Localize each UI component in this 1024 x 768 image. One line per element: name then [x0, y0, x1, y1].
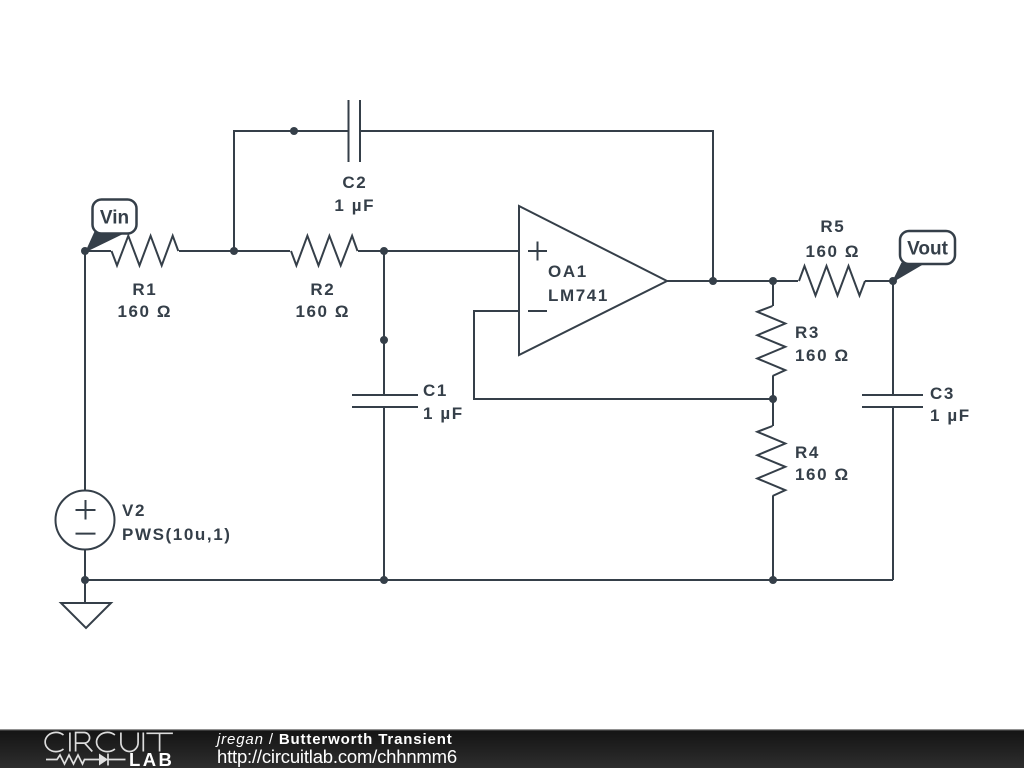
svg-text:160 Ω: 160 Ω — [117, 302, 172, 321]
svg-text:V2: V2 — [122, 501, 146, 520]
svg-text:Vout: Vout — [907, 239, 948, 260]
svg-text:160 Ω: 160 Ω — [795, 465, 850, 484]
svg-text:C3: C3 — [930, 384, 955, 403]
svg-text:R5: R5 — [820, 217, 845, 236]
svg-text:R3: R3 — [795, 323, 820, 342]
svg-text:160 Ω: 160 Ω — [295, 302, 350, 321]
svg-text:OA1: OA1 — [548, 262, 588, 281]
svg-text:PWS(10u,1): PWS(10u,1) — [122, 525, 232, 544]
svg-text:160 Ω: 160 Ω — [805, 242, 860, 261]
svg-text:1 µF: 1 µF — [334, 196, 375, 215]
svg-text:R2: R2 — [310, 280, 335, 299]
svg-text:C2: C2 — [342, 173, 367, 192]
svg-text:Vin: Vin — [100, 208, 129, 229]
svg-text:C1: C1 — [423, 381, 448, 400]
svg-text:LM741: LM741 — [548, 286, 609, 305]
svg-text:160 Ω: 160 Ω — [795, 346, 850, 365]
svg-text:R4: R4 — [795, 443, 820, 462]
svg-text:LAB: LAB — [129, 749, 174, 768]
svg-text:R1: R1 — [132, 280, 157, 299]
svg-text:1 µF: 1 µF — [423, 404, 464, 423]
svg-text:http://circuitlab.com/chhnmm6: http://circuitlab.com/chhnmm6 — [217, 746, 457, 767]
svg-text:1 µF: 1 µF — [930, 406, 971, 425]
